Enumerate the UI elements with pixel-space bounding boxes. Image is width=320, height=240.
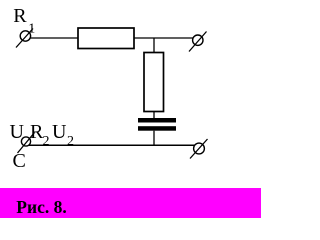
resistor R1 body [78, 28, 134, 49]
capacitor C plate 1 [138, 118, 176, 123]
svg-text:R: R [13, 5, 27, 27]
terminal T2 top-right [189, 32, 207, 52]
wire node to R2 [153, 38, 155, 53]
terminal T1 top-left [16, 29, 33, 48]
wire bottom rail [29, 144, 196, 146]
svg-text:Рис. 8.: Рис. 8. [16, 197, 66, 217]
capacitor C plate 2 [138, 126, 176, 131]
svg-text:U: U [52, 121, 67, 143]
label R2 [30, 121, 50, 149]
wire T1 to R1 [31, 37, 78, 39]
label R1 [13, 5, 35, 36]
wire C to bottom rail [153, 131, 155, 146]
wire R2 to C [153, 112, 155, 119]
label U2 [52, 121, 74, 149]
svg-text:2: 2 [43, 134, 50, 149]
terminal T3 bottom-left [18, 133, 35, 154]
caption bar [0, 188, 261, 218]
svg-text:2: 2 [67, 134, 74, 149]
svg-text:U: U [10, 121, 25, 143]
svg-text:1: 1 [28, 21, 35, 36]
resistor R2 body [144, 53, 164, 112]
wire R1 to T2 [134, 37, 194, 39]
terminal T4 bottom-right [190, 139, 208, 159]
svg-text:C: C [13, 150, 26, 172]
